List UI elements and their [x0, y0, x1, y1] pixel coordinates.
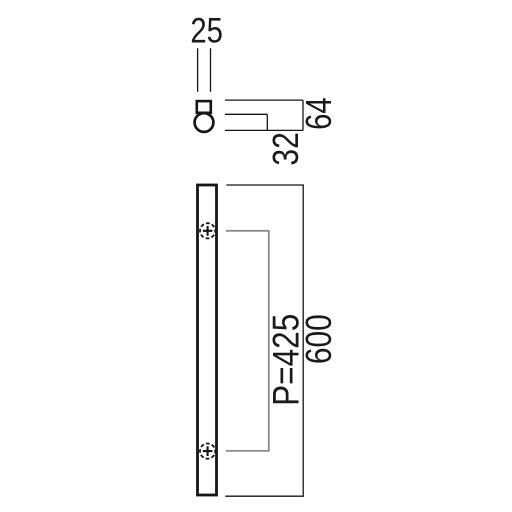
bottom profile line — [225, 129, 303, 131]
extension line left of dim 25 — [197, 48, 199, 92]
door face line (top) — [225, 99, 303, 101]
svg-text:25: 25 — [190, 11, 223, 51]
handle bar rectangle (front view) — [198, 185, 217, 495]
gray pitch dimension bracket P=425 — [226, 231, 269, 451]
extension line right of dim 25 — [210, 48, 212, 92]
top screw: dashed circle — [200, 223, 215, 238]
top screw: cross — [203, 226, 213, 236]
mount square (top view) — [197, 101, 211, 113]
svg-text:600: 600 — [298, 314, 339, 364]
right vertical line of 64 dimension — [302, 100, 304, 130]
step vertical line — [266, 114, 268, 130]
middle profile line (32 reference) — [225, 113, 267, 115]
svg-text:32: 32 — [265, 132, 306, 166]
bottom screw: dashed circle — [200, 444, 215, 459]
svg-text:64: 64 — [298, 97, 339, 129]
handle bar circle (top view) — [195, 113, 214, 132]
bottom screw: cross — [203, 446, 213, 456]
black overall-length dimension bracket 600 — [225, 185, 303, 496]
